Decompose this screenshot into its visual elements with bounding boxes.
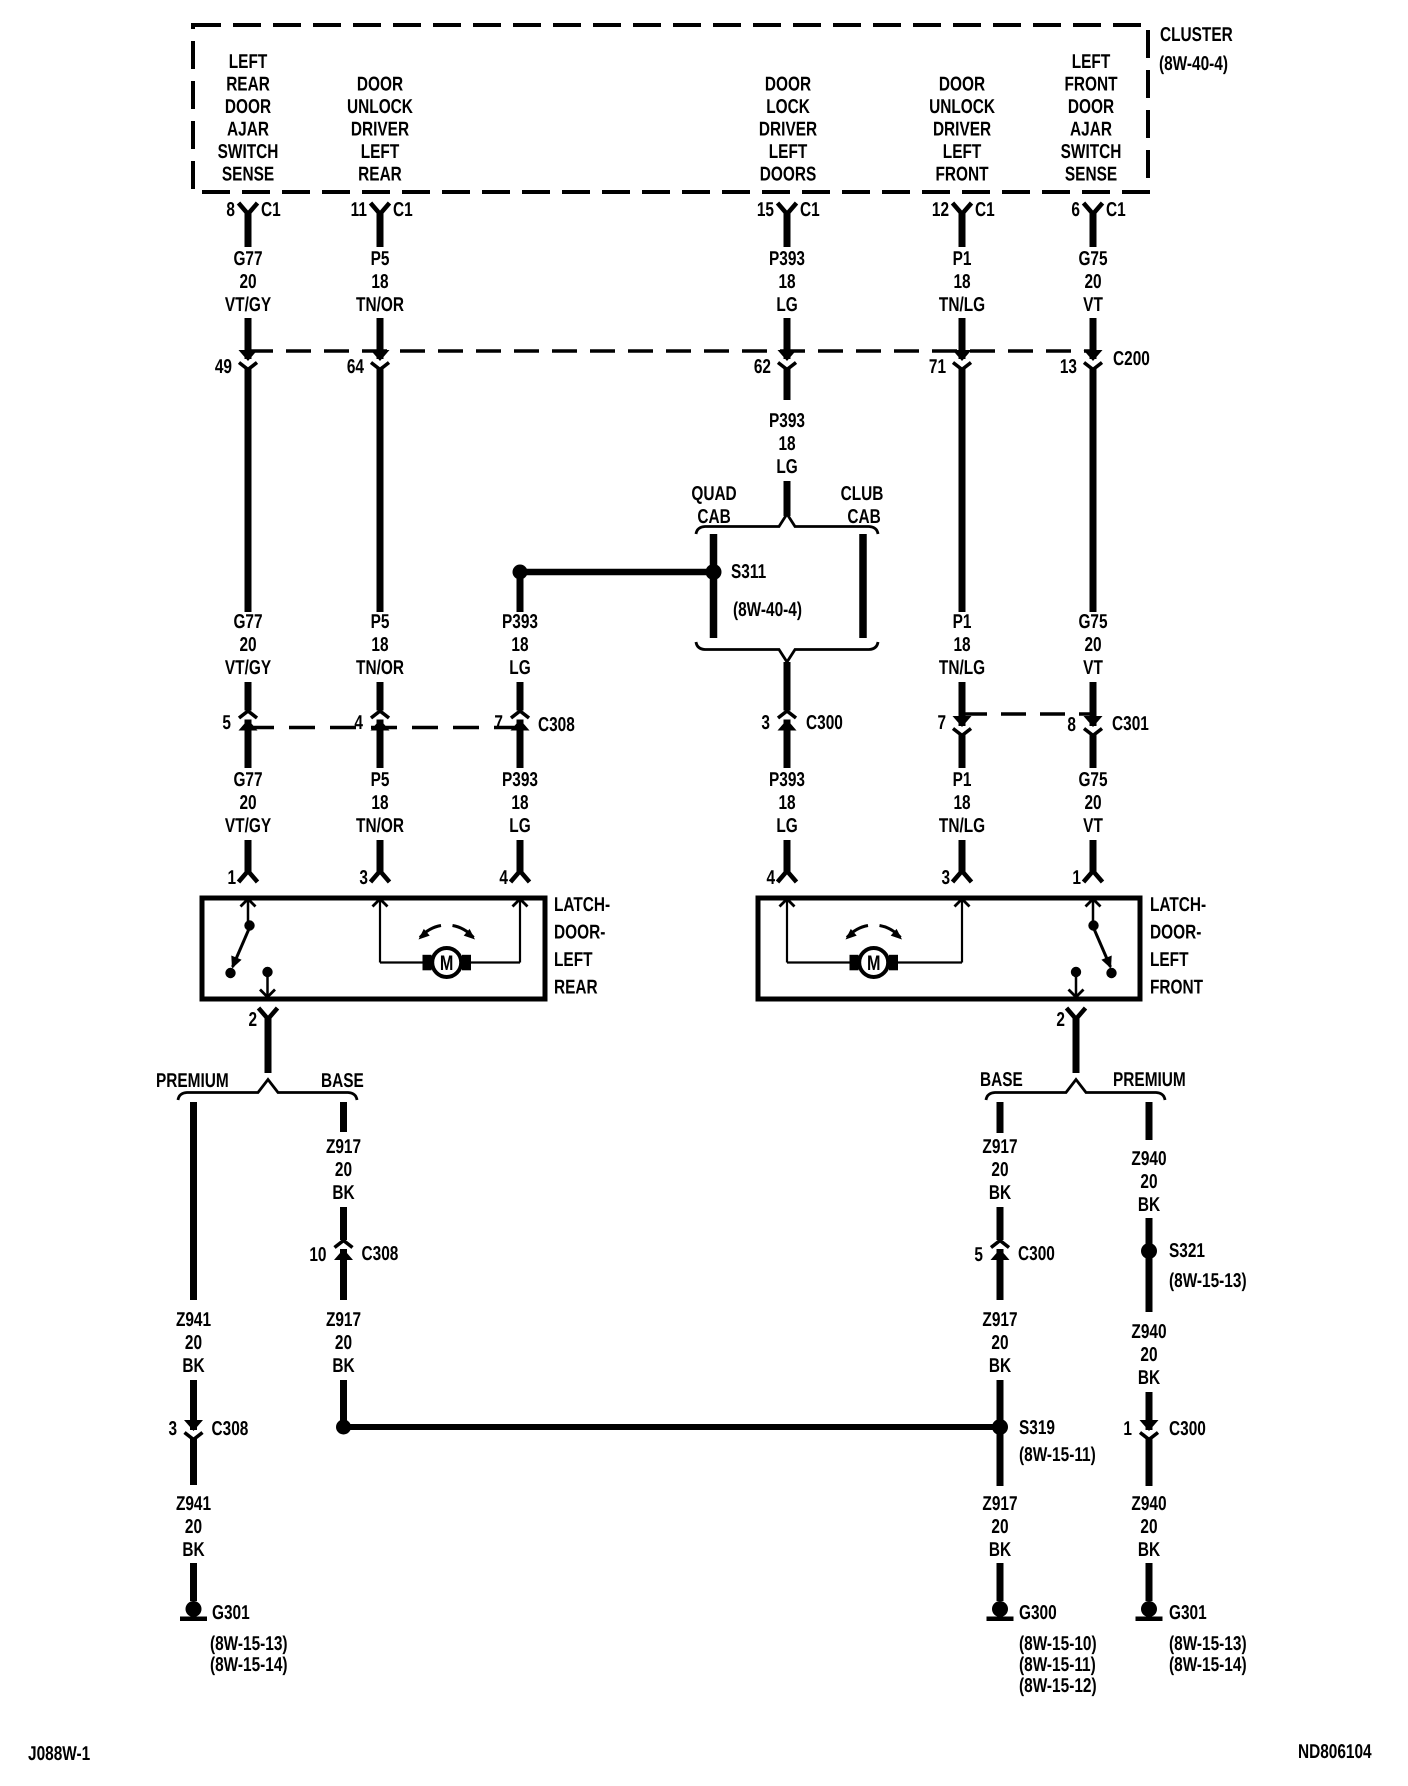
- svg-text:TN/LG: TN/LG: [939, 815, 985, 837]
- svg-text:13: 13: [1060, 356, 1077, 378]
- svg-text:18: 18: [371, 271, 388, 293]
- svg-text:4: 4: [354, 712, 363, 734]
- node label: DOOR LOCK DRIVER LEFT DOORS: [759, 74, 818, 186]
- svg-text:BK: BK: [332, 1355, 355, 1377]
- svg-text:DOOR: DOOR: [765, 74, 812, 96]
- svg-text:LEFT: LEFT: [229, 51, 268, 73]
- svg-text:G75: G75: [1078, 769, 1107, 791]
- svg-text:REAR: REAR: [226, 74, 270, 96]
- svg-text:FRONT: FRONT: [936, 164, 989, 186]
- wire P393: [784, 369, 791, 400]
- wire: [517, 569, 524, 612]
- svg-text:20: 20: [991, 1332, 1008, 1354]
- svg-text:Z940: Z940: [1131, 1148, 1166, 1170]
- latch door left rear box: [202, 898, 545, 999]
- wire: [517, 720, 524, 769]
- wire label P393 18 LG: [502, 769, 538, 837]
- svg-text:P393: P393: [502, 611, 538, 633]
- brace premium/base split (left): [178, 1080, 357, 1101]
- wire: [245, 682, 252, 711]
- wire: [784, 481, 791, 516]
- wire: [1146, 1258, 1153, 1312]
- svg-text:TN/LG: TN/LG: [939, 294, 985, 316]
- svg-text:LOCK: LOCK: [766, 96, 810, 118]
- svg-text:S311: S311: [731, 561, 766, 583]
- connector C301 pin 8: [1067, 714, 1102, 736]
- wire: [1090, 213, 1097, 247]
- svg-text:P5: P5: [371, 248, 390, 270]
- wire: [340, 1207, 347, 1240]
- svg-text:VT: VT: [1083, 815, 1103, 837]
- wire label G77 20 VT/GY: [225, 248, 272, 316]
- svg-text:P5: P5: [371, 611, 390, 633]
- svg-text:Z941: Z941: [176, 1493, 211, 1515]
- svg-text:18: 18: [778, 271, 795, 293]
- lock motor M (left front): [780, 899, 970, 977]
- wire label P1 18 TN/LG: [939, 248, 985, 316]
- svg-text:UNLOCK: UNLOCK: [929, 96, 995, 118]
- svg-text:LG: LG: [509, 815, 530, 837]
- wire: [1090, 369, 1097, 612]
- wire: [997, 1433, 1004, 1486]
- wire: [1146, 1218, 1153, 1244]
- svg-text:12: 12: [932, 199, 949, 221]
- wire: [784, 840, 791, 872]
- connector pin 6 C1: [1071, 199, 1125, 221]
- node label: LEFT FRONT DOOR AJAR SWITCH SENSE: [1061, 51, 1122, 186]
- svg-text:20: 20: [1140, 1516, 1157, 1538]
- svg-text:PREMIUM: PREMIUM: [156, 1070, 229, 1092]
- wire label Z940 20 BK: [1131, 1148, 1166, 1216]
- svg-text:BK: BK: [182, 1539, 205, 1561]
- svg-text:P1: P1: [953, 769, 972, 791]
- ground reference (8W-15-13) (8W-15-14): [210, 1633, 288, 1676]
- switch output contact to pin 2: [260, 967, 275, 997]
- svg-text:7: 7: [494, 712, 503, 734]
- wire: [377, 369, 384, 612]
- svg-text:(8W-15-12): (8W-15-12): [1019, 1675, 1097, 1697]
- svg-text:G300: G300: [1019, 1602, 1057, 1624]
- wire: [245, 318, 252, 359]
- brace base/premium split (right): [986, 1080, 1165, 1101]
- svg-text:18: 18: [953, 792, 970, 814]
- wire: [245, 840, 252, 872]
- svg-text:20: 20: [239, 792, 256, 814]
- svg-text:8: 8: [1067, 714, 1076, 736]
- svg-text:TN/OR: TN/OR: [356, 294, 404, 316]
- brace bottom (cab split): [696, 642, 878, 662]
- svg-text:C308: C308: [362, 1243, 399, 1265]
- svg-text:VT/GY: VT/GY: [225, 294, 272, 316]
- wire: [190, 1439, 197, 1485]
- wire: [1146, 1439, 1153, 1486]
- svg-text:DRIVER: DRIVER: [933, 119, 992, 141]
- brace top (cab split): [696, 514, 878, 534]
- wire: [959, 840, 966, 872]
- wire: [517, 840, 524, 872]
- svg-text:(8W-15-14): (8W-15-14): [210, 1654, 288, 1676]
- ground reference (8W-15-10) (8W-15-11) (8W-15-12): [1019, 1633, 1097, 1697]
- wire: [377, 682, 384, 711]
- wire: [1090, 318, 1097, 359]
- svg-text:CLUB: CLUB: [841, 483, 884, 505]
- svg-text:QUAD: QUAD: [691, 483, 736, 505]
- connector line C308 (dashed): [248, 726, 520, 730]
- ground G300: [987, 1601, 1057, 1624]
- wire: [959, 318, 966, 359]
- svg-text:SWITCH: SWITCH: [1061, 141, 1122, 163]
- latch door left front box: [758, 898, 1140, 999]
- node label: DOOR UNLOCK DRIVER LEFT REAR: [347, 74, 413, 186]
- svg-text:2: 2: [248, 1009, 257, 1031]
- svg-text:20: 20: [991, 1516, 1008, 1538]
- svg-text:20: 20: [185, 1516, 202, 1538]
- svg-text:7: 7: [937, 712, 946, 734]
- svg-text:LEFT: LEFT: [361, 141, 400, 163]
- label QUAD CAB: [691, 483, 736, 528]
- switch output contact to pin 2: [1069, 967, 1084, 997]
- wire: [959, 682, 966, 726]
- wire label Z917 20 BK: [982, 1309, 1017, 1377]
- wire: [997, 1563, 1004, 1601]
- svg-text:BASE: BASE: [321, 1070, 364, 1092]
- svg-text:18: 18: [511, 792, 528, 814]
- wire: [1073, 1018, 1080, 1073]
- svg-text:(8W-15-13): (8W-15-13): [1169, 1270, 1247, 1292]
- svg-text:5: 5: [222, 712, 231, 734]
- connector C200 pin 49: [215, 350, 258, 378]
- connector line C200 (dashed): [248, 349, 1093, 353]
- wire premium circuit: [190, 1102, 197, 1300]
- wire label Z941 20 BK: [176, 1309, 211, 1377]
- svg-text:VT/GY: VT/GY: [225, 657, 272, 679]
- wire: [1090, 735, 1097, 768]
- wire label Z917 20 BK: [326, 1136, 361, 1204]
- svg-text:CLUSTER: CLUSTER: [1160, 24, 1233, 46]
- wire: [784, 720, 791, 769]
- svg-text:3: 3: [359, 867, 368, 889]
- svg-text:CAB: CAB: [847, 506, 880, 528]
- svg-text:15: 15: [757, 199, 774, 221]
- svg-text:VT: VT: [1083, 294, 1103, 316]
- connector C308 pin 4: [354, 711, 389, 734]
- svg-text:20: 20: [1084, 634, 1101, 656]
- node label: LEFT REAR DOOR AJAR SWITCH SENSE: [218, 51, 279, 186]
- wire label Z940 20 BK: [1131, 1321, 1166, 1389]
- connector pin 12 C1: [932, 199, 995, 221]
- svg-text:Z940: Z940: [1131, 1493, 1166, 1515]
- svg-text:3: 3: [941, 867, 950, 889]
- svg-text:G301: G301: [1169, 1602, 1207, 1624]
- svg-text:71: 71: [929, 356, 946, 378]
- wire: [340, 1380, 347, 1421]
- wire: [377, 213, 384, 247]
- wire: [784, 662, 791, 711]
- svg-text:P393: P393: [769, 248, 805, 270]
- svg-text:20: 20: [1084, 792, 1101, 814]
- svg-text:PREMIUM: PREMIUM: [1113, 1069, 1186, 1091]
- connector line C301 (dashed): [962, 712, 1093, 716]
- connector C308 pin 3: [168, 1418, 203, 1440]
- svg-text:11: 11: [351, 199, 367, 221]
- svg-text:DOOR: DOOR: [939, 74, 986, 96]
- splice S321 (8W-15-13): [1141, 1240, 1247, 1292]
- wire label P1 18 TN/LG: [939, 611, 985, 679]
- svg-text:C301: C301: [1112, 713, 1149, 735]
- svg-text:Z941: Z941: [176, 1309, 211, 1331]
- svg-text:LEFT: LEFT: [1072, 51, 1111, 73]
- wire label P393 18 LG: [769, 410, 805, 478]
- latch pin 1: [227, 867, 257, 889]
- svg-text:TN/OR: TN/OR: [356, 657, 404, 679]
- svg-text:P393: P393: [769, 769, 805, 791]
- svg-text:20: 20: [185, 1332, 202, 1354]
- svg-text:C1: C1: [1106, 199, 1126, 221]
- wire label G77 20 VT/GY: [225, 611, 272, 679]
- connector C200 pin 64: [347, 350, 390, 378]
- svg-text:18: 18: [778, 433, 795, 455]
- svg-text:C300: C300: [806, 712, 843, 734]
- wire: [1146, 1563, 1153, 1601]
- latch pin 2: [248, 1008, 277, 1031]
- svg-text:(8W-15-10): (8W-15-10): [1019, 1633, 1097, 1655]
- svg-text:Z917: Z917: [326, 1309, 361, 1331]
- wire: [245, 369, 252, 612]
- connector C308 pin 5: [222, 711, 257, 734]
- svg-text:Z917: Z917: [982, 1136, 1017, 1158]
- latch pin 3: [359, 867, 389, 889]
- svg-text:DOOR: DOOR: [1068, 96, 1115, 118]
- svg-text:LATCH-: LATCH-: [1150, 894, 1206, 916]
- connector C301 pin 7: [937, 712, 971, 736]
- wire label G75 20 VT: [1078, 248, 1107, 316]
- svg-text:LEFT: LEFT: [1150, 949, 1189, 971]
- svg-text:C200: C200: [1113, 348, 1150, 370]
- wire: [997, 1207, 1004, 1240]
- wire: [997, 1249, 1004, 1300]
- svg-text:REAR: REAR: [358, 164, 402, 186]
- splice S311: [706, 561, 802, 621]
- svg-text:DOOR-: DOOR-: [1150, 922, 1201, 944]
- splice junction: [513, 565, 528, 580]
- svg-text:TN/LG: TN/LG: [939, 657, 985, 679]
- svg-text:(8W-15-14): (8W-15-14): [1169, 1654, 1247, 1676]
- svg-text:VT/GY: VT/GY: [225, 815, 272, 837]
- wire label G77 20 VT/GY: [225, 769, 272, 837]
- wire to splice S319: [344, 1424, 1001, 1430]
- connector C200 pin 62: [754, 350, 797, 378]
- svg-text:18: 18: [778, 792, 795, 814]
- wire: [245, 720, 252, 769]
- wire quad cab branch: [710, 534, 718, 638]
- svg-text:18: 18: [953, 271, 970, 293]
- svg-text:FRONT: FRONT: [1064, 74, 1117, 96]
- svg-text:M: M: [440, 952, 453, 975]
- svg-text:Z917: Z917: [326, 1136, 361, 1158]
- wire label G75 20 VT: [1078, 611, 1107, 679]
- svg-text:S321: S321: [1169, 1240, 1205, 1262]
- connector pin 15 C1: [757, 199, 820, 221]
- svg-text:C1: C1: [800, 199, 820, 221]
- wire label Z917 20 BK: [982, 1493, 1017, 1561]
- lock motor M (left rear): [373, 899, 528, 977]
- wire label P1 18 TN/LG: [939, 769, 985, 837]
- wire: [997, 1380, 1004, 1421]
- wire label P5 18 TN/OR: [356, 248, 404, 316]
- wire: [377, 840, 384, 872]
- svg-text:BK: BK: [1138, 1367, 1161, 1389]
- svg-text:C1: C1: [975, 199, 995, 221]
- svg-text:DRIVER: DRIVER: [759, 119, 818, 141]
- wire: [190, 1563, 197, 1601]
- svg-text:Z917: Z917: [982, 1309, 1017, 1331]
- svg-text:P393: P393: [502, 769, 538, 791]
- svg-text:C308: C308: [538, 714, 575, 736]
- splice junction: [336, 1420, 351, 1435]
- svg-text:1: 1: [1072, 867, 1081, 889]
- node label: DOOR UNLOCK DRIVER LEFT FRONT: [929, 74, 995, 186]
- wire: [959, 213, 966, 247]
- svg-text:M: M: [867, 952, 880, 975]
- svg-text:G301: G301: [212, 1602, 250, 1624]
- svg-text:VT: VT: [1083, 657, 1103, 679]
- svg-text:1: 1: [1123, 1418, 1132, 1440]
- cluster label CLUSTER (8W-40-4): [1159, 24, 1233, 75]
- svg-text:(8W-40-4): (8W-40-4): [733, 599, 802, 621]
- svg-text:18: 18: [511, 634, 528, 656]
- wire: [784, 318, 791, 359]
- latch pin 3: [941, 867, 971, 889]
- svg-text:LEFT: LEFT: [554, 949, 593, 971]
- wire: [245, 213, 252, 247]
- svg-text:AJAR: AJAR: [227, 119, 269, 141]
- wire: [1146, 1392, 1153, 1430]
- svg-text:C1: C1: [393, 199, 413, 221]
- svg-text:Z940: Z940: [1131, 1321, 1166, 1343]
- svg-text:20: 20: [335, 1332, 352, 1354]
- svg-text:AJAR: AJAR: [1070, 119, 1112, 141]
- svg-text:DOOR: DOOR: [357, 74, 404, 96]
- svg-text:5: 5: [974, 1244, 983, 1266]
- svg-text:C300: C300: [1018, 1243, 1055, 1265]
- svg-text:BK: BK: [1138, 1194, 1161, 1216]
- wire: [340, 1249, 347, 1300]
- svg-text:(8W-15-13): (8W-15-13): [210, 1633, 288, 1655]
- ajar switch (left rear): [225, 899, 255, 978]
- ground G301: [180, 1601, 250, 1624]
- connector C308 pin 10: [309, 1241, 353, 1267]
- wire: [517, 682, 524, 711]
- latch pin 2: [1056, 1008, 1085, 1031]
- svg-text:LG: LG: [776, 815, 797, 837]
- connector pin 8 C1: [226, 199, 280, 221]
- wire: [959, 369, 966, 612]
- wire premium circuit: [1146, 1102, 1153, 1140]
- wire label P5 18 TN/OR: [356, 611, 404, 679]
- svg-text:G77: G77: [233, 769, 262, 791]
- svg-text:2: 2: [1056, 1009, 1065, 1031]
- svg-text:J088W-1: J088W-1: [28, 1743, 90, 1765]
- connector C308 pin 7: [494, 711, 529, 734]
- svg-text:BK: BK: [1138, 1539, 1161, 1561]
- svg-text:1: 1: [227, 867, 236, 889]
- connector C200 pin 71: [929, 350, 972, 378]
- wire to splice S311: [517, 569, 711, 576]
- svg-text:BASE: BASE: [980, 1069, 1023, 1091]
- ajar switch (left front): [1086, 899, 1117, 978]
- svg-text:Z917: Z917: [982, 1493, 1017, 1515]
- svg-text:SWITCH: SWITCH: [218, 141, 279, 163]
- svg-text:FRONT: FRONT: [1150, 977, 1203, 999]
- svg-text:20: 20: [335, 1159, 352, 1181]
- wire base circuit: [997, 1102, 1004, 1133]
- svg-text:LATCH-: LATCH-: [554, 894, 610, 916]
- svg-text:10: 10: [309, 1244, 326, 1266]
- svg-text:LG: LG: [776, 294, 797, 316]
- latch pin 4: [766, 867, 796, 889]
- svg-text:BK: BK: [332, 1182, 355, 1204]
- svg-text:20: 20: [239, 271, 256, 293]
- wire label P5 18 TN/OR: [356, 769, 404, 837]
- wire: [265, 1018, 272, 1073]
- cluster box: [193, 25, 1148, 192]
- svg-text:62: 62: [754, 356, 771, 378]
- svg-text:G75: G75: [1078, 248, 1107, 270]
- svg-text:G77: G77: [233, 611, 262, 633]
- svg-text:P5: P5: [371, 769, 390, 791]
- svg-text:64: 64: [347, 356, 365, 378]
- svg-text:(8W-40-4): (8W-40-4): [1159, 53, 1228, 75]
- svg-text:P393: P393: [769, 410, 805, 432]
- wire: [784, 213, 791, 247]
- svg-text:LG: LG: [509, 657, 530, 679]
- wire base circuit: [340, 1102, 347, 1132]
- svg-text:6: 6: [1071, 199, 1080, 221]
- svg-text:ND806104: ND806104: [1298, 1741, 1372, 1763]
- wire label P393 18 LG: [769, 248, 805, 316]
- label CLUB CAB: [841, 483, 884, 528]
- svg-text:BK: BK: [989, 1182, 1012, 1204]
- svg-text:S319: S319: [1019, 1417, 1055, 1439]
- svg-text:20: 20: [1084, 271, 1101, 293]
- svg-text:LG: LG: [776, 456, 797, 478]
- connector C200 pin 13: [1060, 350, 1103, 378]
- svg-text:20: 20: [991, 1159, 1008, 1181]
- svg-text:20: 20: [1140, 1344, 1157, 1366]
- connector C300 pin 1: [1123, 1418, 1158, 1440]
- svg-text:18: 18: [953, 634, 970, 656]
- splice S319 (8W-15-11): [992, 1417, 1096, 1466]
- svg-text:C1: C1: [261, 199, 281, 221]
- svg-text:20: 20: [1140, 1171, 1157, 1193]
- svg-text:P1: P1: [953, 611, 972, 633]
- svg-text:3: 3: [168, 1418, 177, 1440]
- wire club cab branch: [859, 534, 867, 638]
- svg-text:(8W-15-11): (8W-15-11): [1019, 1444, 1096, 1466]
- wire label Z941 20 BK: [176, 1493, 211, 1561]
- wire: [959, 735, 966, 768]
- svg-text:G77: G77: [233, 248, 262, 270]
- svg-text:DOORS: DOORS: [760, 164, 816, 186]
- svg-text:8: 8: [226, 199, 235, 221]
- wire label G75 20 VT: [1078, 769, 1107, 837]
- svg-text:SENSE: SENSE: [1065, 164, 1117, 186]
- svg-text:C308: C308: [212, 1418, 249, 1440]
- wire label Z940 20 BK: [1131, 1493, 1166, 1561]
- svg-text:SENSE: SENSE: [222, 164, 274, 186]
- svg-text:DOOR: DOOR: [225, 96, 272, 118]
- svg-text:18: 18: [371, 634, 388, 656]
